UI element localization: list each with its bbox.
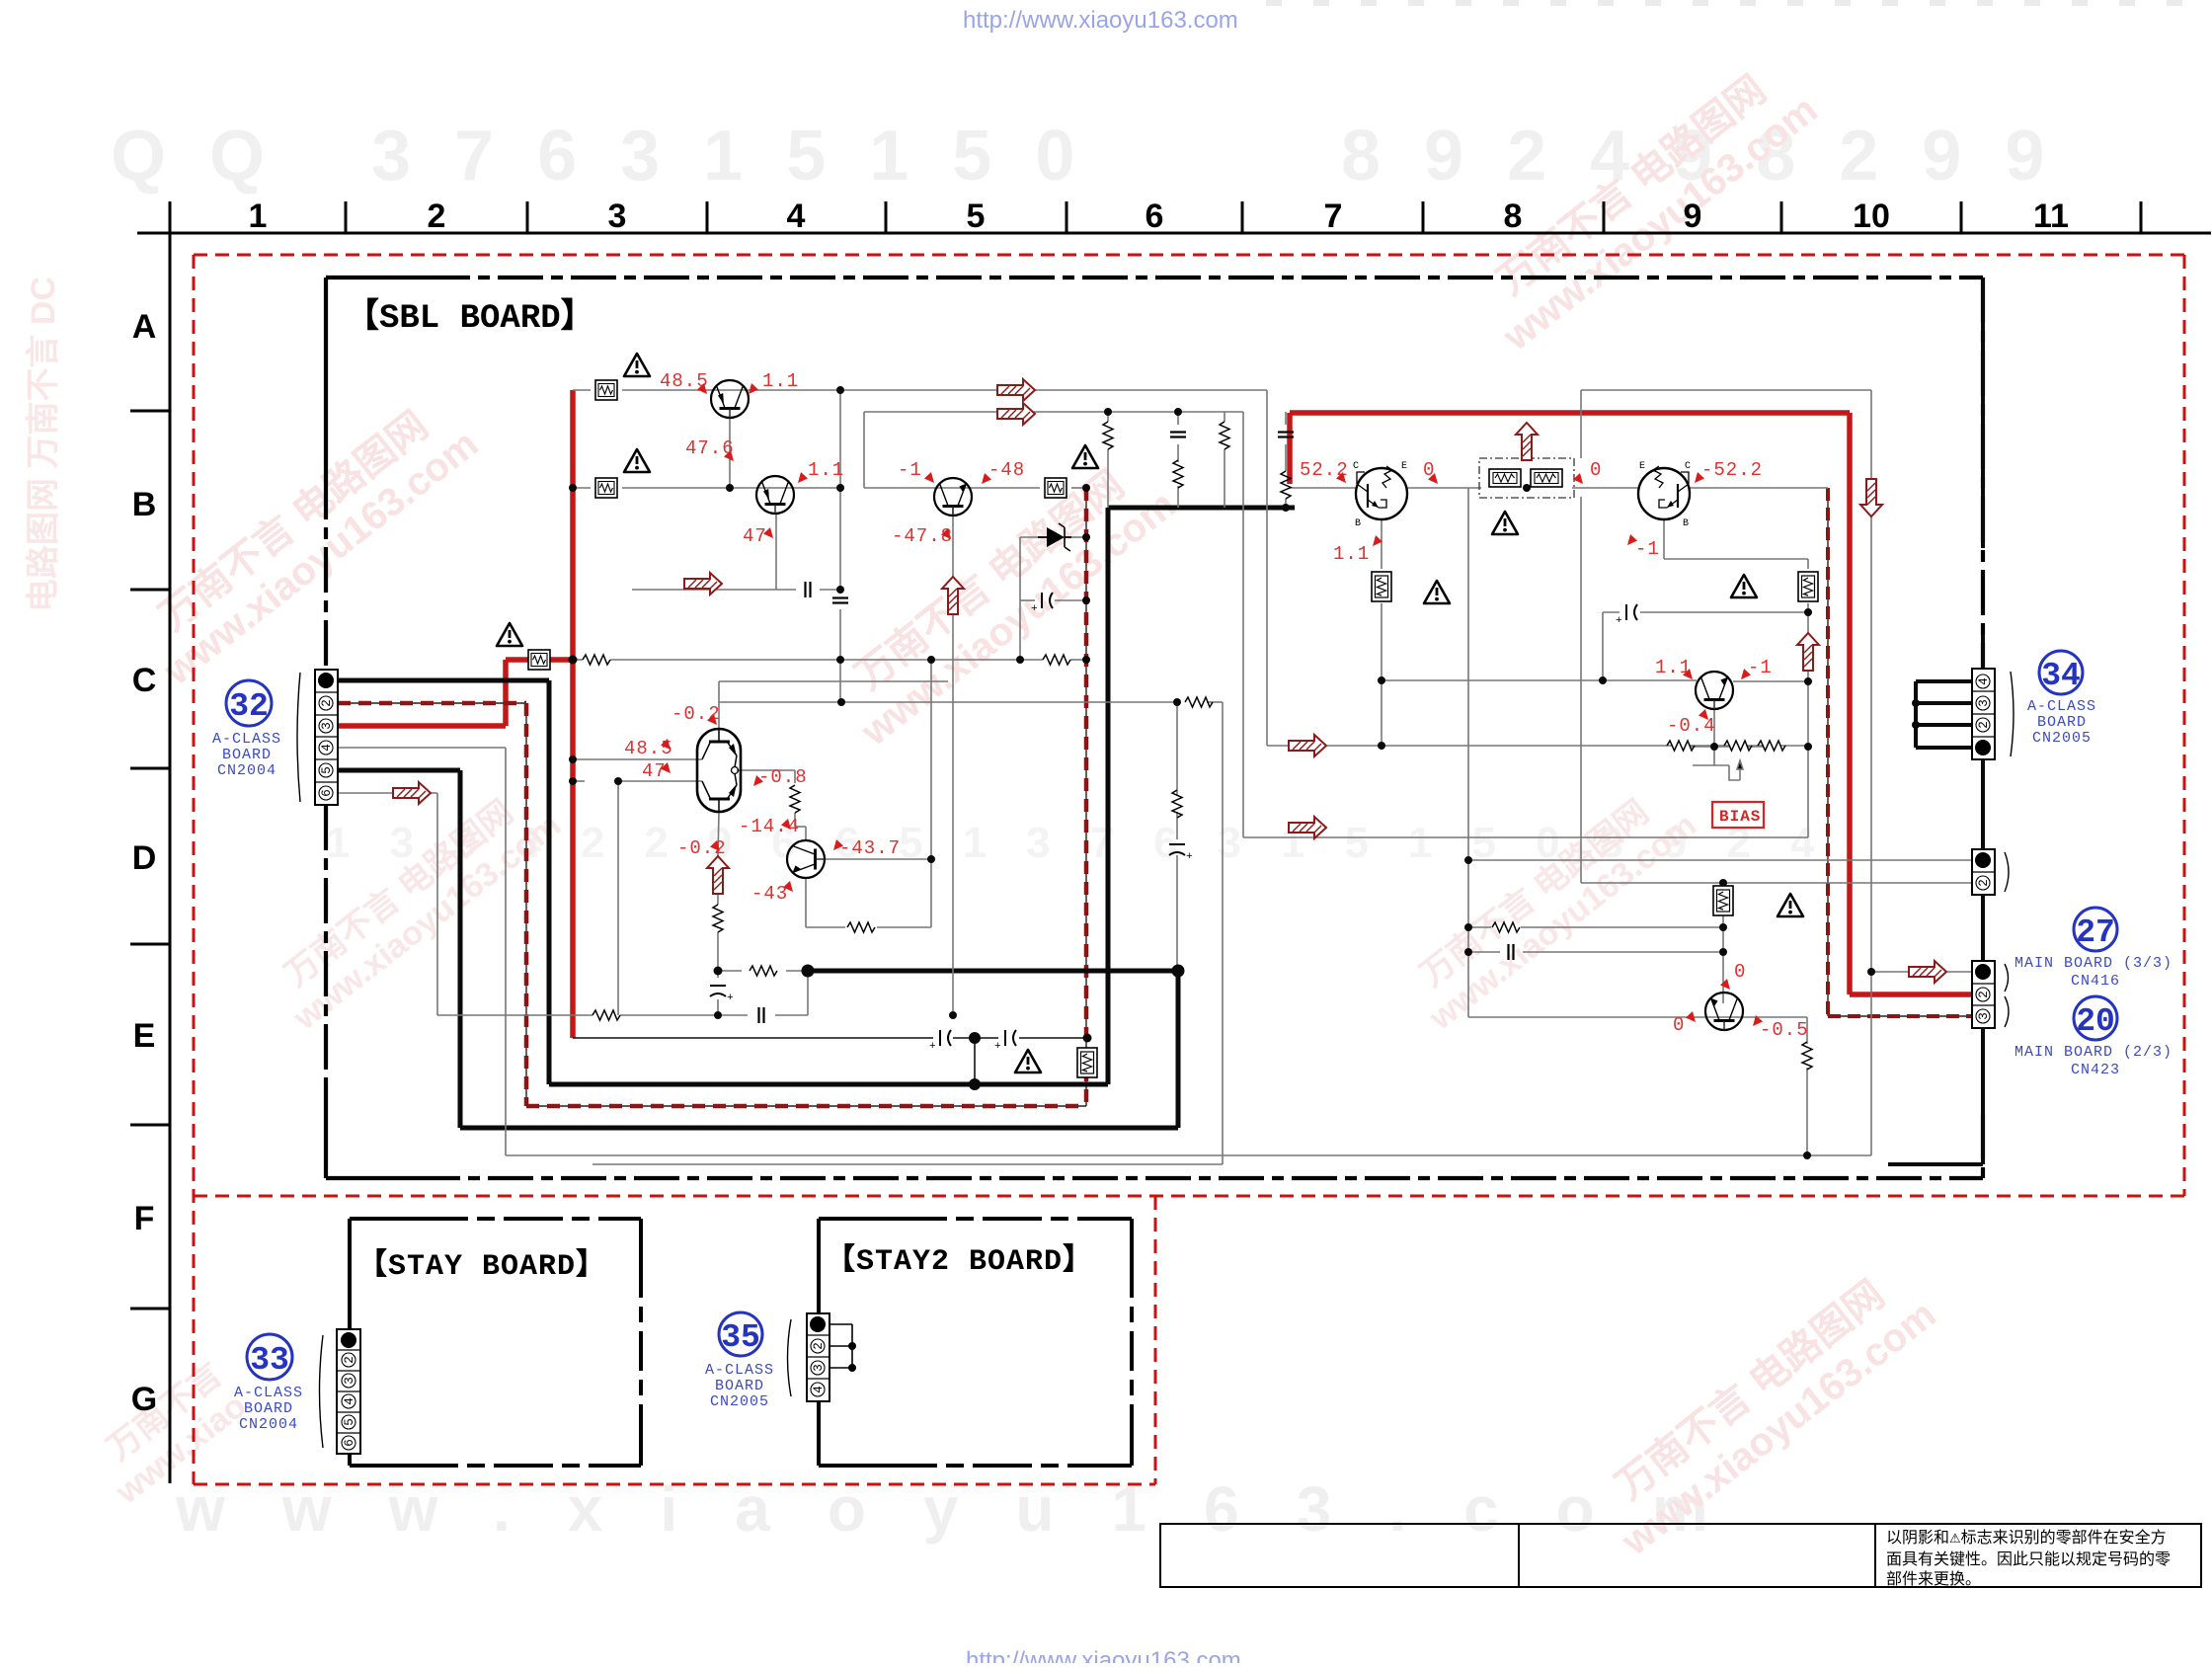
svg-text:-1: -1 — [898, 459, 922, 481]
svg-text:5: 5 — [320, 766, 334, 774]
svg-text:BOARD: BOARD — [715, 1378, 764, 1394]
resistor plain r2 — [1043, 655, 1070, 665]
ruler ticks — [170, 201, 2141, 259]
connector CN2004 strip (33 stay board) — [320, 1329, 361, 1454]
warning triangle T14 — [1072, 445, 1098, 468]
svg-text:9: 9 — [1684, 198, 1702, 235]
wire: loop around bias transistor — [1468, 488, 1972, 1155]
svg-text:C: C — [1353, 461, 1359, 472]
wire: thick black right edge bus — [1888, 279, 1983, 1164]
watermark pink diagonal left-top — [127, 386, 486, 694]
wire: bias pot row — [1690, 747, 1764, 780]
svg-text:0: 0 — [1590, 459, 1602, 481]
svg-text:27: 27 — [2076, 914, 2115, 951]
svg-text:电路图网 万南不言 DC: 电路图网 万南不言 DC — [25, 277, 62, 612]
svg-text:E: E — [1401, 461, 1407, 472]
dual digital transistor Q6 52.2 — [1353, 461, 1407, 529]
transistor Q7 1.1/-1 — [1696, 672, 1733, 710]
resistor R2 boxed — [595, 478, 617, 498]
capacitor C5 vertical — [1278, 433, 1294, 437]
ruler top line — [137, 232, 2211, 235]
resistor plain r12 vertical — [1281, 471, 1291, 499]
wire: CN2005 connector 34 stubs — [1916, 681, 1972, 748]
svg-text:3: 3 — [1977, 1012, 1991, 1020]
capacitor C3 — [759, 1007, 764, 1023]
connector CN2005 strip (34) — [1972, 669, 2014, 759]
SBL board dash-dot box — [326, 278, 1983, 1178]
SBL board title — [326, 276, 425, 279]
watermark top dotted strip — [1266, 0, 2182, 6]
svg-text:【STAY BOARD】: 【STAY BOARD】 — [357, 1248, 606, 1284]
wire: red thick top rail to CN416 pin2 — [1290, 413, 1972, 994]
svg-text:-0.5: -0.5 — [1760, 1019, 1809, 1041]
svg-text:10: 10 — [1853, 198, 1890, 235]
svg-text:D: D — [132, 839, 157, 877]
svg-text:2: 2 — [1977, 879, 1991, 887]
connector CN416/CN423 strip — [1972, 961, 2009, 1028]
capacitor C8 electrolytic — [1031, 593, 1053, 615]
wire: feedback row y=668 — [573, 660, 1086, 1015]
row ticks — [130, 411, 170, 1309]
arrow A11 up — [1797, 633, 1819, 671]
label 34 A-CLASS BOARD CN2005 — [2027, 651, 2096, 747]
svg-text:-14.4: -14.4 — [739, 816, 800, 837]
connector CN2005 strip (35 stay2 board) — [788, 1313, 857, 1401]
svg-text:部件来更换。: 部件来更换。 — [1886, 1570, 1981, 1588]
label 27 MAIN BOARD (3/3) CN416 — [2014, 908, 2172, 990]
svg-text:2: 2 — [320, 699, 334, 707]
wire: right amp section — [1290, 423, 1828, 747]
resistor plain r15 vertical — [1802, 1042, 1812, 1070]
wire: bottom row y=1052 with caps — [573, 1038, 1087, 1084]
wire: pin4 gray long loop — [338, 390, 1972, 1155]
svg-text:4: 4 — [787, 198, 806, 235]
red dashed outer border — [194, 255, 2184, 1484]
svg-text:-43: -43 — [751, 883, 788, 905]
svg-text:-47.8: -47.8 — [892, 525, 953, 547]
warning triangle T8 — [1492, 512, 1518, 534]
wire: base cap row y=597 — [632, 515, 840, 590]
svg-text:-1: -1 — [1635, 538, 1660, 560]
arrow A3 — [393, 782, 431, 804]
svg-text:CN2004: CN2004 — [239, 1416, 298, 1433]
arrow A10 up — [1516, 423, 1538, 460]
zener diode D1 — [1038, 523, 1071, 551]
resistor plain r11 vertical — [1173, 460, 1183, 488]
svg-text:CN416: CN416 — [2071, 973, 2120, 990]
svg-text:3: 3 — [812, 1364, 826, 1372]
resistor plain r9 vertical — [1103, 422, 1113, 449]
warning triangle T2 — [624, 449, 650, 472]
resistor plain r7 row — [1758, 741, 1785, 751]
capacitor C10 electrolytic vertical — [710, 986, 734, 1004]
svg-text:3: 3 — [320, 722, 334, 730]
transistor Q1 top 48.5/1.1 — [711, 380, 749, 419]
svg-text:47: 47 — [743, 525, 767, 547]
resistor plain r17 feedback — [1185, 697, 1213, 707]
svg-text:F: F — [134, 1200, 155, 1237]
svg-text:BOARD: BOARD — [222, 747, 272, 763]
wire: second top row net — [864, 412, 1808, 837]
svg-text:6: 6 — [320, 789, 334, 797]
arrow A9 up — [707, 856, 729, 894]
svg-text:47: 47 — [642, 760, 667, 782]
svg-text:【SBL BOARD】: 【SBL BOARD】 — [346, 297, 594, 338]
wire: dark red dashed net to CN423 pin3 — [1828, 488, 1972, 1016]
svg-text:BIAS: BIAS — [1719, 808, 1761, 826]
svg-text:面具有关键性。因此只能以规定号码的零: 面具有关键性。因此只能以规定号码的零 — [1886, 1550, 2171, 1568]
label 35 A-CLASS BOARD CN2005 — [705, 1312, 774, 1410]
svg-text:A-CLASS: A-CLASS — [212, 731, 281, 748]
capacitor C11 — [1509, 944, 1514, 960]
svg-text:34: 34 — [2041, 658, 2081, 694]
wire: bottom gray row y=1028 — [338, 793, 808, 1015]
warning triangle T7 — [1731, 575, 1757, 597]
BIAS red box — [1712, 802, 1764, 828]
svg-text:4: 4 — [320, 744, 334, 752]
wire: row B resistor 47.6 net — [573, 390, 1223, 1164]
dual transistor oval Q4 — [697, 729, 741, 812]
transistor Q8 bias 0/-0.5 — [1705, 993, 1743, 1031]
capacitor C2 vertical — [832, 598, 848, 603]
svg-text:QQ 376315150: QQ 376315150 — [111, 117, 1118, 196]
capacitor C1 — [806, 582, 811, 597]
svg-text:A-CLASS: A-CLASS — [705, 1362, 774, 1379]
svg-text:4: 4 — [812, 1386, 826, 1393]
transformer dash-dot box with R5 R6 — [1479, 458, 1574, 498]
arrow A6 — [1909, 961, 1946, 983]
svg-text:1.1: 1.1 — [762, 370, 799, 392]
warning triangle T5 — [1015, 1050, 1041, 1072]
svg-text:20: 20 — [2076, 1003, 2115, 1040]
label 33 A-CLASS BOARD CN2004 — [234, 1334, 303, 1433]
watermark pink diagonal bottom-right — [1584, 1255, 1944, 1564]
svg-text:1.1: 1.1 — [1333, 543, 1370, 565]
svg-text:4: 4 — [343, 1397, 356, 1405]
wire: emitter resistor branch under oval — [718, 812, 808, 1015]
warning triangle T9 — [1777, 894, 1803, 916]
svg-text:8: 8 — [1504, 198, 1523, 235]
svg-text:2: 2 — [812, 1342, 826, 1350]
svg-text:http://www.xiaoyu163.com: http://www.xiaoyu163.com — [963, 7, 1238, 34]
parts table — [1160, 1524, 2201, 1587]
capacitor C6 electrolytic — [929, 1030, 951, 1053]
resistor plain r10 vertical — [1220, 422, 1229, 449]
svg-text:http://www.xiaoyu163.com: http://www.xiaoyu163.com — [966, 1647, 1241, 1663]
svg-text:5: 5 — [343, 1418, 356, 1426]
svg-text:E: E — [133, 1017, 156, 1055]
svg-text:-1: -1 — [1748, 657, 1773, 678]
warning triangle T6 — [1424, 581, 1450, 603]
watermark pink diagonal center — [824, 445, 1184, 755]
svg-text:-0.8: -0.8 — [758, 766, 808, 788]
svg-text:B: B — [1355, 518, 1361, 529]
svg-text:0: 0 — [1673, 1014, 1685, 1036]
resistor plain r13 vertical under oval — [713, 905, 723, 932]
capacitor C12 electrolytic vertical — [1169, 844, 1193, 863]
wire: red supply rail vertical from CN2004 pin3 net — [338, 390, 573, 1038]
svg-text:CN2005: CN2005 — [2032, 730, 2092, 747]
wire: right branch verticals x=1122/1193/1240/1302 — [1108, 412, 1286, 508]
watermark pink diagonal right-mid — [1397, 775, 1703, 1038]
transistor Q5 -43.7 — [787, 840, 826, 878]
left frame line — [169, 233, 172, 1483]
warning triangle T1 — [624, 354, 650, 376]
svg-text:B: B — [1683, 518, 1689, 529]
capacitor C9 electrolytic — [1616, 604, 1637, 627]
resistor R10 boxed vertical — [1713, 886, 1733, 915]
parts table chinese note — [1886, 1529, 2171, 1588]
svg-text:32: 32 — [229, 688, 269, 725]
svg-text:C: C — [1685, 461, 1691, 472]
STAY board dash-dot box — [350, 1219, 641, 1466]
resistor R4 boxed — [1045, 478, 1066, 498]
svg-text:E: E — [1639, 461, 1645, 472]
wire: dark red dashed net CN2004 pin2 core — [338, 488, 1972, 1106]
svg-text:A-CLASS: A-CLASS — [2027, 698, 2096, 715]
wire: zener / cap parallel branch — [1020, 537, 1086, 660]
svg-text:33: 33 — [250, 1342, 289, 1379]
wire: oval transistor input rows — [573, 681, 948, 927]
resistor R7 boxed vertical — [1372, 572, 1391, 601]
svg-text:-0.4: -0.4 — [1667, 715, 1716, 737]
svg-text:7: 7 — [1324, 198, 1343, 235]
STAY2 board dash-dot box — [819, 1219, 1132, 1466]
svg-text:CN423: CN423 — [2071, 1062, 2120, 1078]
svg-text:1.1: 1.1 — [808, 459, 844, 481]
wire: thick black net CN2004 pin1 — [338, 508, 1295, 1084]
svg-text:5: 5 — [967, 198, 986, 235]
svg-text:0: 0 — [1734, 961, 1746, 983]
transistor Q2 47.6/1.1 — [756, 476, 794, 515]
dual digital transistor Q9 -52.2 — [1638, 461, 1691, 529]
red flag markers — [697, 383, 707, 394]
svg-text:CN2005: CN2005 — [710, 1393, 769, 1410]
svg-text:1: 1 — [249, 198, 268, 235]
arrow A7 — [684, 573, 722, 595]
resistor plain r1 — [583, 655, 610, 665]
wire: top row 48.5 net — [573, 390, 1808, 746]
red voltage labels — [624, 370, 1809, 1041]
label 32 A-CLASS BOARD CN2004 — [212, 680, 281, 779]
svg-text:【STAY2 BOARD】: 【STAY2 BOARD】 — [826, 1243, 1093, 1279]
svg-text:-48: -48 — [988, 459, 1025, 481]
arrow A8 up — [942, 577, 964, 614]
resistor R3 boxed on red rail — [528, 650, 550, 670]
svg-text:B: B — [132, 486, 157, 523]
resistor plain r3 — [592, 1010, 620, 1020]
wire: thick black net CN2004 pin5 — [338, 770, 1178, 1128]
svg-text:BOARD: BOARD — [244, 1400, 293, 1417]
svg-text:2: 2 — [343, 1356, 356, 1364]
svg-text:4: 4 — [1977, 677, 1991, 685]
wire: dark red dashed net CN2004 pin2 — [338, 488, 1086, 1106]
watermark pink diagonal bottom-left — [84, 1356, 254, 1512]
svg-text:CN2004: CN2004 — [217, 762, 276, 779]
capacitor C7 electrolytic — [994, 1030, 1016, 1053]
svg-text:2: 2 — [1977, 991, 1991, 998]
resistor plain r8 — [1492, 922, 1520, 932]
svg-text:6: 6 — [1145, 198, 1164, 235]
watermark pink diagonal left-mid — [262, 775, 568, 1038]
resistor plain r4 — [750, 966, 777, 976]
wire: -1/-48 transistor net — [864, 488, 1086, 1015]
svg-text:A: A — [132, 308, 157, 346]
watermark pink diagonal top-right — [1465, 50, 1826, 359]
resistor R1 boxed — [595, 380, 617, 400]
resistor R8 boxed vertical — [1798, 572, 1818, 601]
svg-text:11: 11 — [2033, 198, 2069, 235]
svg-text:3: 3 — [1977, 699, 1991, 707]
arrow A1 — [997, 379, 1035, 401]
arrow A2 — [997, 403, 1035, 425]
svg-text:A-CLASS: A-CLASS — [234, 1385, 303, 1401]
warning triangle T3 — [497, 623, 522, 646]
svg-text:G: G — [131, 1381, 157, 1418]
row letters — [131, 308, 157, 1418]
svg-text:以阴影和⚠标志来识别的零部件在安全方: 以阴影和⚠标志来识别的零部件在安全方 — [1886, 1529, 2167, 1547]
svg-text:MAIN BOARD (2/3): MAIN BOARD (2/3) — [2014, 1044, 2172, 1061]
svg-text:C: C — [132, 662, 157, 699]
resistor plain r14 vertical — [790, 785, 800, 813]
svg-text:3: 3 — [608, 198, 627, 235]
capacitor C4 vertical — [1170, 433, 1186, 437]
watermark pink vertical far-left — [25, 277, 62, 612]
connector D-row 2pin strip — [1972, 849, 2009, 895]
resistor plain r5 row — [1667, 741, 1695, 751]
arrow A12 down — [1860, 479, 1882, 516]
connector CN2004 strip (32) — [297, 670, 338, 805]
arrow A5 — [1289, 817, 1326, 838]
resistor plain r6 row — [1724, 741, 1752, 751]
transistor Q3 -1/-48 — [934, 478, 972, 516]
resistor plain r18 vertical — [1172, 790, 1182, 818]
svg-text:2: 2 — [428, 198, 446, 235]
resistor R11 boxed vertical on dashed net — [1077, 1048, 1097, 1077]
svg-text:BOARD: BOARD — [2037, 714, 2087, 731]
svg-text:2: 2 — [1977, 721, 1991, 729]
label 20 MAIN BOARD (2/3) CN423 — [2014, 996, 2172, 1078]
arrow A4 — [1289, 735, 1326, 756]
svg-text:35: 35 — [721, 1319, 760, 1356]
resistor plain r16 vertical under Q5 — [847, 922, 875, 932]
svg-text:3: 3 — [343, 1377, 356, 1385]
svg-text:6: 6 — [343, 1439, 356, 1447]
ruler numbers — [249, 198, 2069, 235]
svg-text:-43.7: -43.7 — [839, 837, 901, 859]
svg-text:-52.2: -52.2 — [1701, 459, 1763, 481]
svg-text:MAIN BOARD (3/3): MAIN BOARD (3/3) — [2014, 955, 2172, 972]
